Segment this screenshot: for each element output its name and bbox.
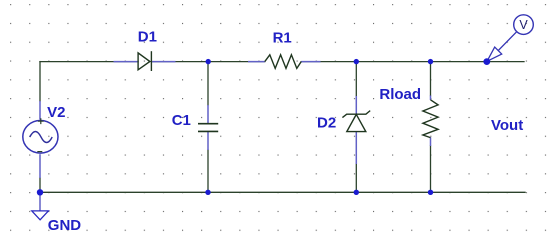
wire D2 branch upper <box>355 62 357 96</box>
wire C1 branch upper <box>207 62 209 105</box>
wire left vertical lower (V2 to bottom rail) <box>39 178 41 192</box>
junction Rload top <box>428 59 433 64</box>
wire Rload branch upper <box>430 62 432 96</box>
junction D2 bottom <box>354 190 359 195</box>
zener diode D2 <box>342 96 370 164</box>
wire left vertical upper (top rail to V2) <box>39 62 41 101</box>
capacitor C1 <box>198 105 218 150</box>
diode D1 <box>114 51 176 71</box>
voltage source V2 <box>23 101 58 178</box>
junction Rload bottom <box>428 190 433 195</box>
wire top rail right <box>301 61 524 63</box>
junction probe node <box>483 58 490 65</box>
junction C1 top <box>206 59 211 64</box>
svg-text:R1: R1 <box>273 30 292 47</box>
wire top rail left <box>40 61 138 63</box>
resistor R1 <box>248 55 321 69</box>
wire D2 branch lower <box>355 164 357 192</box>
voltmeter probe <box>487 15 533 62</box>
wire bottom rail <box>40 191 525 193</box>
junction C1 bottom <box>205 190 210 195</box>
svg-text:C1: C1 <box>172 112 191 129</box>
svg-text:D1: D1 <box>138 29 157 46</box>
wire Rload branch lower <box>430 146 432 192</box>
svg-text:GND: GND <box>48 217 82 234</box>
svg-text:Vout: Vout <box>491 117 523 134</box>
wire top rail middle <box>151 61 264 63</box>
svg-text:D2: D2 <box>317 115 336 132</box>
ground <box>32 192 49 220</box>
resistor Rload <box>423 96 438 147</box>
svg-text:Rload: Rload <box>379 86 421 103</box>
junction D2 top <box>354 59 359 64</box>
svg-text:V: V <box>519 18 528 32</box>
svg-text:V2: V2 <box>47 104 65 121</box>
junction bottom-left (V2/GND) <box>37 189 43 195</box>
wire C1 branch lower <box>207 150 209 192</box>
